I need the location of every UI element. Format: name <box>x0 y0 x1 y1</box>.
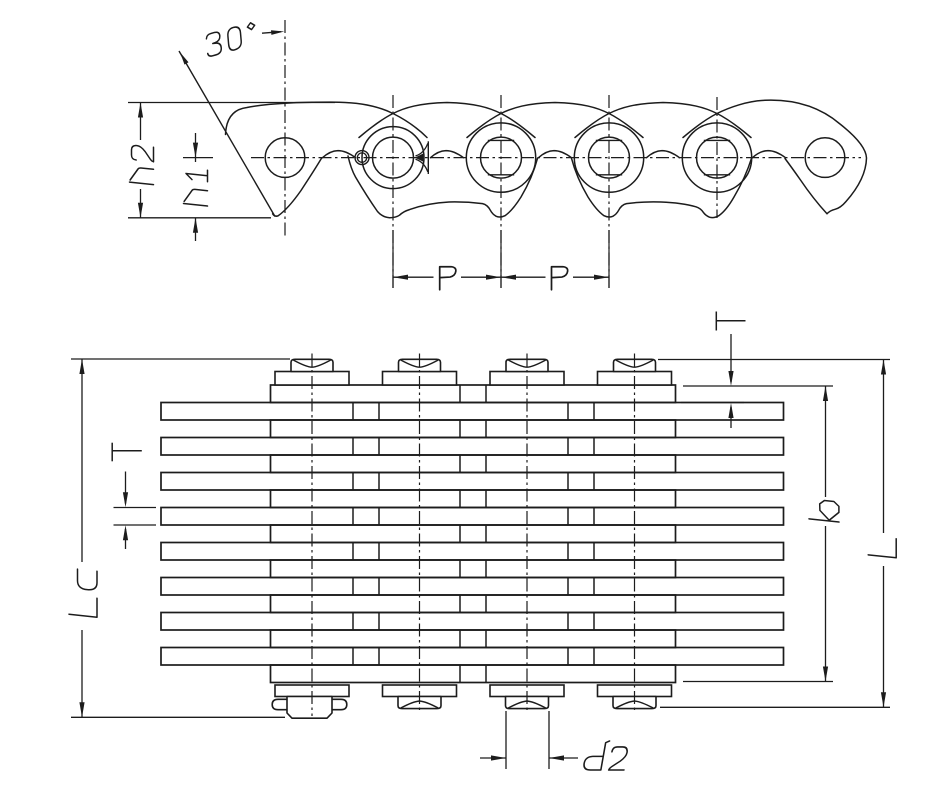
plate junction row 8 x=568 <box>567 508 569 526</box>
plate junction row 17 x=486 <box>485 665 487 683</box>
label b <box>809 499 839 522</box>
plate junction row 16 x=594 <box>593 648 595 666</box>
tooth 2 guide plate bottom 2-3 and tooth 3 <box>348 156 538 218</box>
pin 4 centerline plan view <box>634 354 636 713</box>
T dim line lower <box>125 529 127 549</box>
P2 left arrow <box>501 275 516 280</box>
pin hole link 1 <box>265 138 305 178</box>
horizontal centerline side view <box>251 157 861 159</box>
T dim line upper <box>125 472 127 504</box>
T right dim line lower <box>730 407 732 428</box>
plate junction row 10 x=353 <box>352 543 354 561</box>
Lc dimension line lower <box>81 630 83 717</box>
centerline extension for h1 <box>183 157 213 159</box>
leader line to pin 1 centerline <box>262 32 281 34</box>
plate junction row 15 x=486 <box>485 630 487 648</box>
plate junction row 16 x=379 <box>378 648 380 666</box>
plate junction row 8 x=379 <box>378 508 380 526</box>
Lc bottom extension line <box>71 716 285 718</box>
plate junction row 1 x=460 <box>459 385 461 403</box>
plate junction row 7 x=486 <box>485 490 487 508</box>
pin 2 centerline plan view <box>419 354 421 713</box>
rocker pin flat top at x=501 <box>488 139 514 141</box>
back plate crotch at x=339 <box>323 151 356 158</box>
pin 2 top head <box>399 359 441 371</box>
rocker joint lower flare <box>416 159 428 171</box>
pin 1 riveted end <box>287 697 332 719</box>
h2 arrow up <box>138 103 143 118</box>
pin 3 bottom head <box>506 697 549 709</box>
L dimension line lower <box>883 566 885 707</box>
L bottom extension line <box>660 706 890 708</box>
plate row 15 <box>271 630 676 648</box>
pin hole link 6 <box>805 138 845 178</box>
plate junction row 5 x=486 <box>485 455 487 473</box>
plate junction row 4 x=379 <box>378 438 380 456</box>
T right dim line upper <box>730 334 732 382</box>
plate row 11 <box>271 560 676 578</box>
plate row 7 <box>271 490 676 508</box>
plate junction row 2 x=568 <box>567 403 569 421</box>
plate junction row 2 x=353 <box>352 403 354 421</box>
pin 3 top washer <box>490 372 564 386</box>
plate row 6 <box>161 473 784 491</box>
d2 extension line left <box>505 711 507 769</box>
rocker pin flat top at x=717 <box>704 139 730 141</box>
plate row 9 <box>271 525 676 543</box>
P extension at pin 2 <box>392 230 394 288</box>
P extension at pin 3 <box>500 230 502 288</box>
rocker pin flat bottom at x=609 <box>596 174 622 176</box>
plate junction row 13 x=460 <box>459 595 461 613</box>
plate junction row 12 x=594 <box>593 578 595 596</box>
h2 dimension line upper <box>140 103 142 141</box>
rocker joint upper flare <box>416 144 428 156</box>
pin 3 bottom washer <box>490 685 564 697</box>
P dim line right segment <box>461 276 501 278</box>
L dimension line upper <box>883 360 885 534</box>
plate junction row 13 x=486 <box>485 595 487 613</box>
h1 arrow up at tooth tip line <box>193 218 198 233</box>
pin 1 centerline plan view <box>311 354 313 717</box>
plate junction row 11 x=486 <box>485 560 487 578</box>
label T left <box>112 443 142 462</box>
pin 4 bottom washer <box>598 685 672 697</box>
pin 4 bottom head <box>613 697 656 709</box>
plate junction row 7 x=460 <box>459 490 461 508</box>
top extension line right segment <box>658 359 890 361</box>
pin 1 right tab <box>332 699 347 709</box>
vertical centerline pin 4 <box>608 95 610 288</box>
pin 3 centerline plan view <box>526 354 528 713</box>
d2 dim line right <box>549 757 578 759</box>
plate junction row 9 x=486 <box>485 525 487 543</box>
vertical centerline pin 2 <box>392 95 394 288</box>
label P first pitch <box>440 267 456 290</box>
plate junction row 6 x=568 <box>567 473 569 491</box>
pin 3 top head <box>506 359 548 371</box>
end link plate 6 outline <box>683 100 867 214</box>
pin boss circle at pin 2 <box>362 127 424 189</box>
pin hole pin 3 <box>481 137 522 178</box>
plate row 2 <box>161 403 784 421</box>
P extension at pin 4 <box>608 230 610 288</box>
arrowhead on flank line <box>180 52 189 64</box>
label 30 degrees <box>202 22 260 57</box>
plate junction row 12 x=568 <box>567 578 569 596</box>
pin 2 bottom head <box>398 697 441 709</box>
plate junction row 16 x=353 <box>352 648 354 666</box>
plate junction row 3 x=486 <box>485 420 487 438</box>
pin boss circle at pin 4 <box>574 123 643 192</box>
link plate 1 top edge <box>226 102 428 137</box>
plate junction row 1 x=486 <box>485 385 487 403</box>
plate junction row 10 x=568 <box>567 543 569 561</box>
pin 1 top washer <box>275 372 349 386</box>
plate row 17 <box>271 665 676 683</box>
label h2 <box>130 145 154 185</box>
plate row 4 <box>161 438 784 456</box>
pin boss circle at pin 3 <box>466 123 535 192</box>
b dimension line lower <box>825 526 827 682</box>
pin hole pin 2 <box>373 137 414 178</box>
link plate 3-4 top edge <box>467 103 643 138</box>
label d2 <box>583 741 628 770</box>
label P second pitch <box>552 267 568 290</box>
P2 dim line right segment <box>573 276 609 278</box>
plate row 3 <box>271 420 676 438</box>
plate junction row 4 x=353 <box>352 438 354 456</box>
h2 top extension line <box>128 102 335 104</box>
pin 1 left tab <box>272 699 287 709</box>
plate junction row 16 x=568 <box>567 648 569 666</box>
pin 1 top head <box>291 359 333 371</box>
plate junction row 3 x=460 <box>459 420 461 438</box>
Lc dimension line upper <box>81 359 83 562</box>
L arrow down <box>881 692 886 707</box>
rocker pin flat bottom at x=717 <box>704 174 730 176</box>
plate junction row 12 x=353 <box>352 578 354 596</box>
link plate 2-3 top edge <box>359 103 535 138</box>
plate junction row 10 x=379 <box>378 543 380 561</box>
T arrow down <box>123 492 128 507</box>
vertical centerline pin 5 <box>716 97 718 218</box>
plate junction row 4 x=594 <box>593 438 595 456</box>
d2 arrow left <box>549 755 564 760</box>
plate row 14 <box>161 613 784 631</box>
plate row 8 <box>161 508 784 526</box>
back plate crotch at x=769 <box>753 151 786 158</box>
30 degree tooth flank line <box>179 51 275 217</box>
P left arrow <box>393 275 408 280</box>
Lc arrow down <box>79 702 84 717</box>
plate junction row 14 x=594 <box>593 613 595 631</box>
Lc arrow up <box>79 359 84 374</box>
h2 h1 bottom extension line <box>128 217 271 219</box>
P2 right arrow <box>594 275 609 280</box>
d2 arrow right <box>491 755 506 760</box>
label Lc <box>69 569 97 617</box>
small bushing outer circle <box>355 151 369 165</box>
plate row 10 <box>161 543 784 561</box>
plate row 1 <box>271 385 676 403</box>
plate row 13 <box>271 595 676 613</box>
rocker joint bar <box>427 141 429 174</box>
h1 arrow down at centerline <box>193 143 198 158</box>
plate row 12 <box>161 578 784 596</box>
plate row 5 <box>271 455 676 473</box>
plate junction row 6 x=353 <box>352 473 354 491</box>
plate junction row 6 x=594 <box>593 473 595 491</box>
back plate crotch at x=447 <box>431 151 464 158</box>
label T right <box>716 312 745 331</box>
h1 dimension line lower <box>195 218 197 241</box>
plate junction row 5 x=460 <box>459 455 461 473</box>
T right arrow up <box>728 403 733 418</box>
plate junction row 6 x=379 <box>378 473 380 491</box>
T extension line lower <box>114 524 157 526</box>
rocker pin flat top at x=609 <box>596 139 622 141</box>
plate junction row 4 x=568 <box>567 438 569 456</box>
b arrow up <box>823 386 828 401</box>
plate junction row 9 x=460 <box>459 525 461 543</box>
plate junction row 10 x=594 <box>593 543 595 561</box>
pin boss circle at pin 5 <box>682 123 751 192</box>
plate junction row 8 x=353 <box>352 508 354 526</box>
P right arrow <box>486 275 501 280</box>
plate junction row 15 x=460 <box>459 630 461 648</box>
plate junction row 11 x=460 <box>459 560 461 578</box>
b bottom extension line <box>683 681 833 683</box>
label h1 <box>184 168 208 206</box>
pin hole pin 5 <box>697 137 738 178</box>
plate junction row 8 x=594 <box>593 508 595 526</box>
b dimension line upper <box>825 386 827 497</box>
tooth 1 tip and right flank <box>273 158 322 216</box>
h1 dimension line upper <box>195 133 197 162</box>
small bushing inner circle <box>357 153 366 162</box>
top extension line left segment <box>71 358 290 360</box>
pin 2 bottom washer <box>383 685 457 697</box>
T right extension line lower <box>681 402 744 404</box>
vertical centerline pin 3 <box>500 95 502 288</box>
back plate crotch at x=555 <box>539 151 572 158</box>
tooth 4 guide plate bottom 4-5 and tooth 5 <box>572 158 752 217</box>
vertical centerline pin 1 <box>284 20 286 237</box>
pin 1 bottom washer <box>275 685 349 697</box>
L arrow up <box>881 360 886 375</box>
pin hole pin 4 <box>589 137 630 178</box>
link plate 4-5 top edge <box>575 103 751 138</box>
plate junction row 2 x=594 <box>593 403 595 421</box>
plate junction row 17 x=460 <box>459 665 461 683</box>
plate row 16 <box>161 648 784 666</box>
P2 dim line left segment <box>501 276 546 278</box>
d2 extension line right <box>548 711 550 769</box>
T right arrow down <box>728 371 733 386</box>
plate junction row 2 x=379 <box>378 403 380 421</box>
h2 dimension line lower <box>140 189 142 218</box>
leader arrowhead <box>271 30 284 35</box>
plate junction row 14 x=568 <box>567 613 569 631</box>
rocker joint arrow detail <box>415 153 424 161</box>
T right / b top extension line <box>683 385 833 387</box>
pin 4 top head <box>614 359 656 371</box>
b arrow down <box>823 667 828 682</box>
label L <box>868 536 896 558</box>
T extension line upper <box>114 507 157 509</box>
plate junction row 14 x=379 <box>378 613 380 631</box>
back plate crotch at x=663 <box>647 151 680 158</box>
d2 dim line left <box>480 757 506 759</box>
h2 arrow down <box>138 203 143 218</box>
plate junction row 14 x=353 <box>352 613 354 631</box>
plate junction row 12 x=379 <box>378 578 380 596</box>
pin 4 top washer <box>598 372 672 386</box>
pin 2 top washer <box>383 372 457 386</box>
P dim line left segment <box>393 276 434 278</box>
rocker pin flat bottom at x=501 <box>488 174 514 176</box>
T arrow up <box>123 525 128 540</box>
